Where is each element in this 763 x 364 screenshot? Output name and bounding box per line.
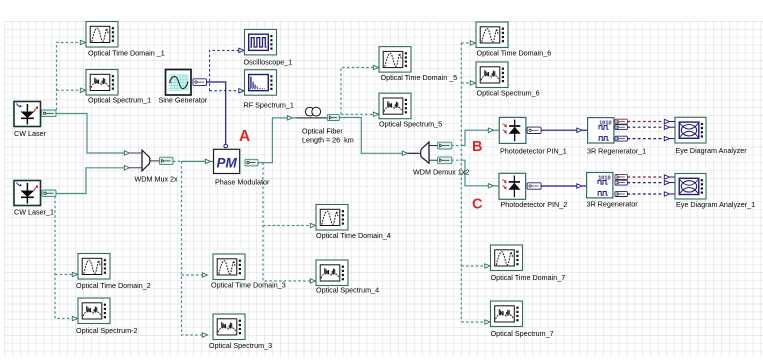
Photodetector PIN_1 — [499, 117, 526, 143]
Sine Generator output port — [193, 79, 207, 86]
svg-text:Optical Time Domain _5: Optical Time Domain _5 — [381, 73, 458, 82]
Optical Spectrum-2 visualizer — [78, 298, 110, 324]
dashed wires 3R Regenerator_1 to Eye Diagram Analyzer — [627, 121, 663, 123]
Optical Time Domain_6 visualizer — [476, 22, 508, 48]
Oscilloscope_1 visualizer — [245, 29, 277, 55]
3R Regenerator_1 — [588, 118, 614, 143]
dashed monitor tap from CW Laser to Optical Time Domain _1 and Optical Spectrum_1 — [57, 43, 81, 111]
Photodetector PIN_2 — [499, 173, 526, 199]
Eye Diagram Analyzer — [675, 117, 706, 143]
wire WDM Mux output to Phase Modulator input — [173, 160, 182, 162]
svg-text:Optical Spectrum_5: Optical Spectrum_5 — [379, 120, 442, 129]
svg-text:3R Regenerator_1: 3R Regenerator_1 — [587, 146, 646, 155]
svg-text:A: A — [239, 128, 250, 145]
svg-text:Eye Diagram Analyzer: Eye Diagram Analyzer — [676, 146, 748, 155]
svg-text:Optical Spectrum_6: Optical Spectrum_6 — [477, 88, 540, 97]
dashed monitor tap from WDM Mux output down to Optical Time Domain_3 and Optical Spectrum_3 — [182, 161, 203, 335]
electrical wire Photodetector PIN_2 to 3R Regenerator — [541, 185, 577, 187]
Phase Modulator top electrical pin — [224, 144, 228, 148]
WDM Mux 2x output port — [160, 157, 173, 164]
wire CW Laser_1 to WDM Mux input 2 — [56, 168, 125, 194]
3R Regenerator output port 3 — [615, 192, 627, 197]
3R Regenerator_1 output port 1 — [615, 119, 627, 124]
svg-text:Optical Spectrum_1: Optical Spectrum_1 — [88, 96, 151, 105]
Optical Spectrum_6 visualizer — [476, 62, 508, 88]
Optical Time Domain _1 visualizer — [86, 22, 118, 48]
svg-text:B: B — [472, 139, 482, 155]
svg-text:PM: PM — [217, 156, 238, 171]
wire WDM Demux output 2 to Photodetector PIN_2 — [451, 159, 461, 161]
svg-text:Optical Time Domain_6: Optical Time Domain_6 — [477, 49, 552, 58]
svg-text:CW Laser_1: CW Laser_1 — [14, 208, 54, 217]
svg-text:Photodetector PIN_1: Photodetector PIN_1 — [500, 147, 567, 156]
Optical Time Domain_7 visualizer — [491, 245, 523, 271]
CW Laser output port — [42, 110, 57, 117]
Optical Fiber — [297, 107, 328, 118]
CW Laser_1 output port — [42, 190, 56, 196]
3R Regenerator output port 1 — [615, 175, 627, 180]
Optical Time Domain_2 visualizer — [78, 254, 110, 280]
svg-text:Sine Generator: Sine Generator — [159, 96, 208, 105]
svg-text:Optical Spectrum_7: Optical Spectrum_7 — [491, 329, 554, 338]
WDM Demux 1x2 output port 1 — [438, 142, 452, 149]
dashed monitor tap from Phase Modulator output down to Optical Time Domain_4 and Optical Spectrum_4 — [263, 163, 311, 281]
WDM Demux 1x2 — [408, 142, 438, 163]
Optical Spectrum_1 visualizer — [86, 70, 118, 96]
svg-text:Optical Time Domain _1: Optical Time Domain _1 — [88, 48, 165, 57]
Optical Time Domain_3 visualizer — [213, 254, 245, 280]
Optical Time Domain _5 visualizer — [379, 47, 411, 73]
dashed monitor tap from CW Laser_1 to Optical Time Domain_2 and Optical Spectrum-2 — [55, 196, 73, 319]
svg-text:Photodetector PIN_2: Photodetector PIN_2 — [501, 200, 568, 209]
Optical Time Domain_4 visualizer — [316, 205, 348, 231]
Phase Modulator — [214, 149, 240, 173]
3R Regenerator_1 output port 3 — [615, 136, 627, 141]
svg-text:Optical Spectrum-2: Optical Spectrum-2 — [76, 326, 138, 335]
WDM Mux 2x — [142, 150, 161, 171]
wire WDM Demux output 1 to Photodetector PIN_1 — [451, 145, 461, 147]
Eye Diagram Analyzer_1 — [675, 174, 706, 200]
svg-text:C: C — [472, 197, 483, 213]
dashed wires 3R Regenerator to Eye Diagram Analyzer_1 — [627, 176, 663, 178]
svg-text:Optical Time Domain_4: Optical Time Domain_4 — [316, 231, 391, 240]
svg-text:Optical Time Domain_7: Optical Time Domain_7 — [491, 273, 566, 282]
3R Regenerator output port 2 — [615, 180, 627, 185]
dashed monitor tap from Optical Fiber output to Optical Time Domain _5 and Optical Spectrum_5 — [341, 68, 374, 115]
Photodetector PIN_1 output port — [527, 127, 541, 133]
svg-text:RF Spectrum_1: RF Spectrum_1 — [244, 101, 294, 110]
WDM Demux 1x2 output port 2 — [438, 157, 452, 164]
Optical Spectrum_3 visualizer — [213, 314, 245, 340]
wire Optical Fiber output to WDM Demux input — [339, 118, 402, 154]
dashed monitor bus at WDM Demux to Optical Time Domain_6, Optical Spectrum_6, Optical Time Domain_7, Optical Spectrum_7 — [460, 43, 462, 322]
svg-text:Optical Time Domain_2: Optical Time Domain_2 — [76, 281, 151, 290]
svg-text:Optical Time Domain_3: Optical Time Domain_3 — [211, 281, 286, 290]
svg-text:Optical Fiber: Optical Fiber — [302, 127, 343, 136]
Optical Spectrum_4 visualizer — [316, 260, 348, 286]
svg-text:WDM Demux 1x2: WDM Demux 1x2 — [413, 167, 469, 176]
electrical wire Photodetector PIN_1 to 3R Regenerator_1 — [541, 129, 577, 131]
RF Spectrum_1 visualizer — [245, 70, 277, 96]
svg-text:3R Regenerator: 3R Regenerator — [587, 200, 639, 209]
wire Phase Modulator output up to Optical Fiber input — [258, 118, 288, 163]
dashed electrical taps Sine Generator to Oscilloscope_1 and RF Spectrum_1 — [210, 50, 239, 90]
CW Laser_1 — [14, 181, 41, 206]
svg-text:Oscilloscope_1: Oscilloscope_1 — [244, 58, 293, 67]
Optical Spectrum_5 visualizer — [379, 93, 411, 119]
CW Laser — [14, 102, 41, 127]
Optical Fiber output port — [327, 115, 339, 121]
svg-text:Optical Spectrum_4: Optical Spectrum_4 — [316, 286, 379, 295]
svg-text:CW Laser: CW Laser — [14, 129, 47, 138]
svg-text:Phase Modulator: Phase Modulator — [215, 178, 270, 187]
Photodetector PIN_2 output port — [527, 183, 541, 189]
Sine Generator — [166, 70, 192, 96]
3R Regenerator — [587, 173, 613, 198]
electrical wire Sine Generator to Phase Modulator top pin — [206, 82, 226, 144]
svg-text:WDM Mux 2x: WDM Mux 2x — [135, 175, 179, 184]
Phase Modulator output port — [245, 159, 258, 166]
svg-text:Eye Diagram Analyzer_1: Eye Diagram Analyzer_1 — [676, 200, 755, 209]
svg-text:Length = 26 km: Length = 26 km — [302, 136, 354, 145]
3R Regenerator_1 output port 2 — [615, 125, 627, 130]
wire CW Laser to WDM Mux input 1 — [56, 114, 125, 154]
Optical Spectrum_7 visualizer — [491, 301, 523, 327]
svg-text:Optical Spectrum_3: Optical Spectrum_3 — [209, 341, 272, 350]
